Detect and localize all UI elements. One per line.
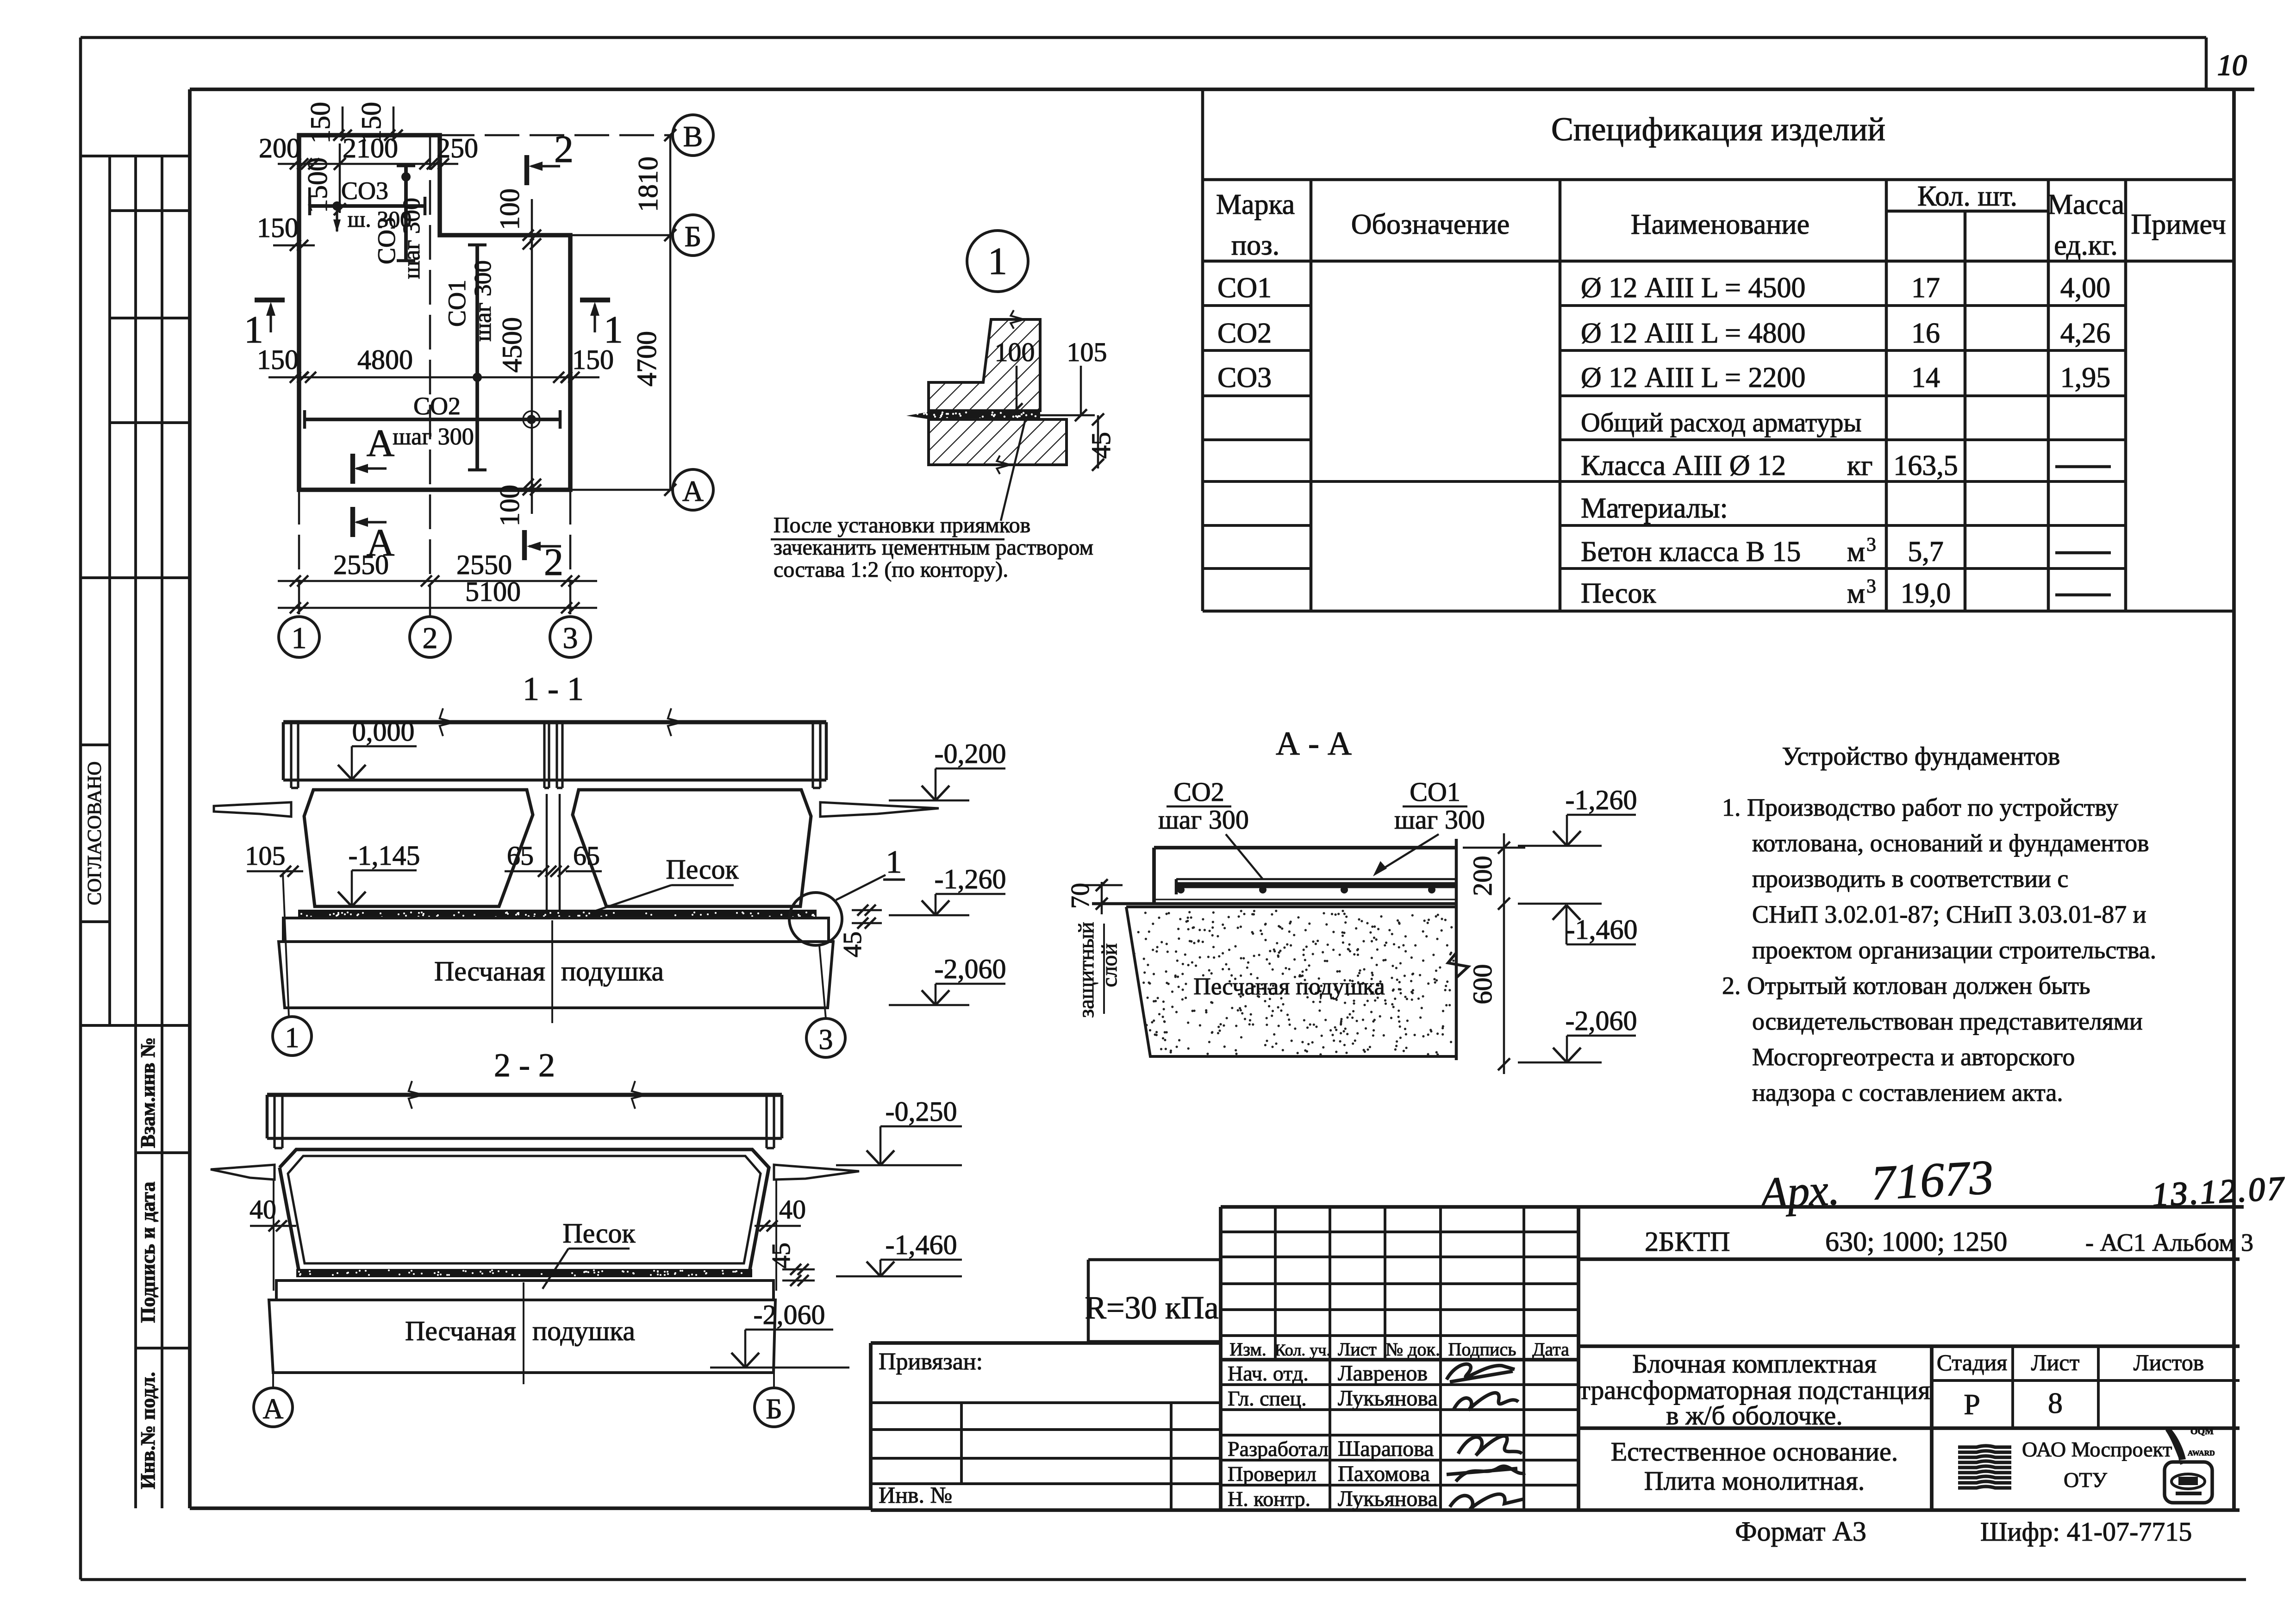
svg-text:кг: кг	[1847, 450, 1873, 481]
1-1 level -2,060	[936, 983, 1005, 985]
svg-text:освидетельствован представител: освидетельствован представителями	[1752, 1007, 2143, 1035]
privyazan box	[871, 1341, 1221, 1345]
svg-text:16: 16	[1911, 318, 1940, 349]
svg-text:4500: 4500	[497, 317, 527, 373]
svg-text:Лист: Лист	[2031, 1349, 2080, 1375]
svg-text:3: 3	[1866, 576, 1876, 597]
svg-text:105: 105	[1067, 337, 1107, 367]
award emblem	[2165, 1462, 2212, 1503]
svg-text:шаг 300: шаг 300	[470, 260, 496, 341]
svg-text:м: м	[1847, 536, 1865, 568]
svg-text:надзора с составлением акта.: надзора с составлением акта.	[1752, 1079, 2063, 1106]
spec table outline	[1201, 90, 1204, 611]
axis circle B	[673, 215, 713, 256]
svg-text:1: 1	[886, 844, 902, 880]
svg-text:Ø 12 АIII L = 4800: Ø 12 АIII L = 4800	[1581, 318, 1806, 349]
left strip cell SOGLASOVANO	[80, 743, 110, 746]
axis circle 2	[410, 617, 450, 657]
svg-text:шаг 300: шаг 300	[393, 424, 474, 450]
2-2 axis circle B	[773, 1373, 775, 1388]
2-2 legs	[273, 1095, 275, 1148]
svg-text:4700: 4700	[631, 331, 662, 387]
svg-text:А: А	[367, 422, 395, 465]
svg-text:10: 10	[2217, 49, 2247, 81]
dim 2550 2550 row	[278, 580, 597, 582]
svg-text:3: 3	[1866, 534, 1876, 556]
signatures handwritten	[1447, 1364, 1515, 1382]
svg-text:8: 8	[2048, 1387, 2063, 1419]
svg-text:3: 3	[563, 621, 578, 655]
rebar CO3 horizontal	[310, 204, 425, 208]
svg-text:Подпись и дата: Подпись и дата	[137, 1181, 159, 1323]
svg-text:65: 65	[573, 841, 600, 871]
dim 4500 rotated	[531, 252, 533, 479]
svg-text:19,0: 19,0	[1901, 578, 1951, 609]
spec table columns	[1310, 180, 1313, 611]
svg-text:4,00: 4,00	[2060, 272, 2111, 304]
svg-text:СО3: СО3	[341, 177, 388, 205]
svg-text:105: 105	[245, 841, 286, 871]
axis 3 dashed line	[569, 490, 572, 617]
svg-text:Устройство фундаментов: Устройство фундаментов	[1782, 742, 2060, 771]
svg-text:5,7: 5,7	[1908, 536, 1944, 568]
svg-text:шаг 300: шаг 300	[1158, 805, 1249, 835]
title cell line	[1578, 1344, 2240, 1348]
left strip label Vzam.inv	[136, 1151, 190, 1154]
svg-text:Изм.: Изм.	[1229, 1339, 1266, 1360]
A-A level -2,060	[1567, 1035, 1636, 1037]
svg-text:1: 1	[292, 621, 307, 655]
svg-text:Спецификация изделий: Спецификация изделий	[1551, 111, 1885, 148]
svg-text:После установки приямков: После установки приямков	[774, 513, 1030, 537]
svg-text:Нач. отд.: Нач. отд.	[1228, 1362, 1309, 1385]
svg-text:-1,145: -1,145	[349, 840, 420, 871]
svg-text:Пахомова: Пахомова	[1338, 1462, 1430, 1486]
svg-text:2: 2	[423, 621, 438, 655]
1-1 sand cushion	[279, 942, 833, 1008]
svg-text:Взам.инв №: Взам.инв №	[137, 1037, 159, 1148]
svg-text:Наименование: Наименование	[1631, 209, 1809, 240]
svg-text:-1,260: -1,260	[935, 864, 1006, 894]
svg-text:Марка: Марка	[1216, 189, 1295, 220]
svg-text:Лукьянова: Лукьянова	[1338, 1386, 1438, 1411]
svg-text:СО2: СО2	[1217, 318, 1272, 349]
svg-text:Б: Б	[685, 220, 702, 253]
title block top line	[1221, 1205, 2244, 1209]
axis circle V	[673, 115, 713, 156]
svg-text:Лист: Лист	[1338, 1339, 1377, 1360]
svg-text:проектом организации строитель: проектом организации строительства.	[1752, 936, 2156, 964]
svg-text:1810: 1810	[633, 156, 663, 212]
svg-text:R=30 кПа: R=30 кПа	[1085, 1290, 1218, 1326]
svg-text:Проверил: Проверил	[1228, 1462, 1316, 1486]
detail wall piece hatched	[929, 319, 1040, 411]
detail base slab hatched	[929, 419, 1067, 465]
svg-text:OQM: OQM	[2190, 1426, 2214, 1437]
svg-text:А: А	[682, 475, 704, 507]
svg-text:-0,200: -0,200	[935, 738, 1006, 769]
2BKTP row	[1578, 1257, 2240, 1261]
svg-text:Мосгоргеотреста и авторского: Мосгоргеотреста и авторского	[1752, 1043, 2075, 1071]
svg-text:Р: Р	[1964, 1388, 1980, 1421]
svg-text:1: 1	[285, 1022, 299, 1054]
A-A level -1,260	[1567, 814, 1636, 816]
privyazan sub rows	[871, 1401, 1221, 1404]
svg-text:45: 45	[838, 931, 867, 957]
axis circle A	[673, 469, 713, 510]
svg-text:Гл. спец.: Гл. спец.	[1228, 1387, 1307, 1410]
left strip label Podpis i data	[136, 1347, 190, 1349]
svg-text:2. Отрытый котлован должен быт: 2. Отрытый котлован должен быть	[1722, 972, 2090, 999]
svg-text:630; 1000; 1250: 630; 1000; 1250	[1825, 1226, 2007, 1257]
section mark 2 top	[524, 155, 529, 185]
1-1 centre joint lines	[546, 794, 548, 911]
svg-text:ОТУ: ОТУ	[2064, 1468, 2107, 1492]
svg-text:163,5: 163,5	[1893, 450, 1958, 481]
svg-text:-2,060: -2,060	[935, 954, 1006, 984]
svg-text:А - А: А - А	[1276, 725, 1352, 762]
2-2 top slab	[267, 1093, 782, 1097]
axis B dashed line	[440, 134, 673, 137]
svg-text:В: В	[683, 120, 703, 153]
stage sheet cells	[1932, 1379, 2240, 1382]
svg-text:Формат А3: Формат А3	[1735, 1516, 1866, 1547]
dim 150 left	[273, 244, 315, 247]
svg-text:2 - 2: 2 - 2	[494, 1047, 555, 1084]
2-2 sand seam	[296, 1269, 752, 1277]
svg-text:2: 2	[544, 541, 563, 584]
A-A dim 70	[1083, 884, 1123, 887]
dim 100 upper	[531, 199, 533, 252]
svg-text:200: 200	[1467, 856, 1497, 896]
svg-text:2550: 2550	[333, 550, 389, 580]
svg-text:Шифр: 41-07-7715: Шифр: 41-07-7715	[1980, 1517, 2192, 1547]
svg-text:СНиП 3.02.01-87; СНиП 3.03.01-: СНиП 3.02.01-87; СНиП 3.03.01-87 и	[1752, 900, 2146, 928]
rebar CO2 horizontal	[305, 418, 560, 421]
A-A slab	[1154, 846, 1456, 849]
svg-text:СО1: СО1	[1410, 777, 1460, 807]
1-1 legs	[290, 722, 292, 788]
svg-text:200: 200	[259, 133, 300, 163]
svg-text:шаг 300: шаг 300	[1394, 805, 1485, 835]
1-1 sand seam	[298, 910, 817, 918]
svg-text:А: А	[263, 1393, 284, 1425]
2-2 dim 45	[782, 1268, 815, 1271]
svg-text:производить в соответствии с: производить в соответствии с	[1752, 865, 2068, 893]
svg-text:Ø 12 АIII L = 4500: Ø 12 АIII L = 4500	[1581, 272, 1806, 304]
2-2 foundation slab	[276, 1280, 774, 1300]
2-2 left wing	[211, 1165, 275, 1180]
svg-text:№ док.: № док.	[1385, 1339, 1440, 1360]
dim 4700 rotated	[669, 235, 672, 490]
svg-text:Песчаная: Песчаная	[434, 956, 545, 987]
svg-text:в ж/б оболочке.: в ж/б оболочке.	[1666, 1400, 1842, 1430]
2-2 axis circle A	[272, 1373, 274, 1388]
1-1 centerline	[551, 920, 553, 1023]
A-A sand cushion dotted	[1126, 907, 1456, 1056]
sheet outer border	[81, 36, 2206, 39]
svg-text:-2,060: -2,060	[1566, 1006, 1637, 1036]
svg-text:45: 45	[767, 1243, 796, 1268]
1-1 axis circle 3	[806, 1018, 845, 1057]
detail dim 45	[1097, 415, 1099, 468]
svg-text:-2,060: -2,060	[754, 1299, 825, 1330]
1-1 dim 45	[852, 909, 882, 912]
svg-text:защитный: защитный	[1074, 922, 1098, 1018]
1-1 level -1,260	[936, 893, 1005, 895]
svg-text:Подпись: Подпись	[1448, 1339, 1516, 1360]
svg-text:Привязан:: Привязан:	[879, 1349, 983, 1375]
svg-text:2550: 2550	[456, 550, 512, 580]
svg-text:Лавренов: Лавренов	[1338, 1361, 1428, 1386]
axis B(2) line to circle	[570, 234, 673, 237]
section mark 1 right	[580, 298, 610, 302]
svg-text:100: 100	[494, 188, 525, 230]
svg-text:14: 14	[1911, 362, 1940, 394]
svg-text:Инв.№ подл.: Инв.№ подл.	[137, 1372, 159, 1489]
A-A dim chain right	[1503, 833, 1505, 1074]
svg-text:Обозначение: Обозначение	[1351, 209, 1510, 240]
svg-text:-1,460: -1,460	[886, 1230, 957, 1260]
rebar CO1 vertical	[475, 245, 479, 470]
award quill icon	[2165, 1427, 2186, 1460]
dim 150 4800 150 row	[268, 376, 599, 379]
svg-text:40: 40	[250, 1194, 276, 1224]
svg-text:150: 150	[305, 102, 336, 144]
svg-text:100: 100	[494, 485, 525, 526]
svg-text:100: 100	[995, 337, 1035, 367]
top dim chain 200 2100 250	[278, 163, 458, 165]
section mark 1 left	[255, 298, 285, 302]
2-2 centerline	[523, 1282, 524, 1384]
handwritten archive number	[1756, 1150, 1995, 1218]
svg-text:СО3: СО3	[1217, 362, 1272, 394]
svg-text:СО1: СО1	[443, 280, 471, 327]
svg-text:СО1: СО1	[1217, 272, 1272, 304]
spec table row lines	[1203, 304, 1311, 307]
svg-text:СО3: СО3	[373, 217, 400, 264]
1-1 detail circle on seam	[789, 893, 842, 945]
svg-text:ед.кг.: ед.кг.	[2054, 230, 2118, 261]
2-2 tub	[280, 1149, 769, 1269]
svg-text:Масса: Масса	[2047, 189, 2124, 220]
A-A level -1,460 up	[1518, 903, 1602, 905]
svg-text:40: 40	[779, 1194, 806, 1224]
svg-text:-0,250: -0,250	[886, 1096, 957, 1127]
svg-text:150: 150	[356, 102, 387, 144]
signature rows lines	[1221, 1383, 1578, 1386]
dim 150 rotated top pair	[342, 106, 344, 139]
svg-text:СОГЛАСОВАНО: СОГЛАСОВАНО	[84, 762, 106, 906]
detail 1 circle label	[967, 231, 1028, 292]
2-2 level -2,060	[745, 1329, 833, 1331]
svg-text:Материалы:: Материалы:	[1581, 493, 1728, 524]
1-1 right wing	[820, 802, 939, 817]
svg-text:Лукьянова: Лукьянова	[1338, 1487, 1438, 1511]
svg-text:65: 65	[507, 841, 534, 871]
svg-text:Общий расход арматуры: Общий расход арматуры	[1581, 407, 1861, 437]
svg-text:Стадия: Стадия	[1937, 1349, 2008, 1375]
svg-text:Дата: Дата	[1532, 1339, 1569, 1360]
svg-text:подушка: подушка	[561, 956, 664, 987]
svg-text:Кол. шт.: Кол. шт.	[1917, 181, 2017, 212]
drawing frame	[190, 87, 2254, 91]
svg-text:Н. контр.: Н. контр.	[1228, 1487, 1310, 1511]
svg-text:СО2: СО2	[413, 392, 461, 420]
1-1 leader to detail 1	[836, 875, 886, 900]
svg-text:Инв. №: Инв. №	[879, 1482, 952, 1508]
1-1 axis witness line 1	[283, 874, 289, 1017]
1-1 axis circle 1	[273, 1017, 312, 1056]
svg-text:AWARD: AWARD	[2188, 1449, 2215, 1457]
svg-text:Песок: Песок	[1581, 578, 1656, 609]
page number tick	[2205, 37, 2208, 89]
2-2 witness verticals	[273, 1180, 275, 1291]
svg-text:состава 1:2 (по контору).: состава 1:2 (по контору).	[774, 557, 1008, 582]
svg-text:Естественное основание.: Естественное основание.	[1611, 1437, 1898, 1467]
svg-text:1 - 1: 1 - 1	[523, 670, 584, 707]
svg-text:СО2: СО2	[1173, 777, 1224, 807]
dim 1500 rotated	[339, 144, 341, 213]
1-1 foundation slab	[283, 918, 829, 942]
svg-text:1. Производство работ по устро: 1. Производство работ по устройству	[1722, 793, 2118, 821]
detail leader line	[1001, 419, 1025, 521]
dim 5100 row	[278, 607, 597, 609]
1-1 right tub	[573, 790, 811, 906]
2-2 level -0,250	[880, 1125, 962, 1128]
section mark 2 bottom	[522, 530, 527, 560]
svg-text:Разработал: Разработал	[1228, 1437, 1329, 1461]
mosproekt logo stripes	[1958, 1446, 2011, 1447]
svg-text:Песок: Песок	[562, 1218, 636, 1249]
svg-text:70: 70	[1066, 883, 1095, 909]
svg-text:150: 150	[257, 212, 299, 243]
svg-text:подушка: подушка	[532, 1316, 635, 1346]
plan outline	[299, 135, 570, 490]
dim 1810 rotated	[669, 135, 672, 235]
svg-text:-1,460: -1,460	[1566, 914, 1638, 945]
svg-text:котлована, оснований и фундаме: котлована, оснований и фундаментов	[1752, 829, 2149, 857]
svg-text:Песчаная: Песчаная	[405, 1316, 516, 1346]
2-2 sand cushion	[269, 1300, 775, 1373]
svg-text:ОАО Моспроект: ОАО Моспроект	[2022, 1437, 2172, 1461]
svg-text:Арх.: Арх.	[1756, 1164, 1841, 1218]
svg-text:2: 2	[554, 128, 574, 171]
A-A rebar	[1176, 878, 1455, 881]
svg-text:1: 1	[988, 240, 1007, 283]
svg-text:Шарапова: Шарапова	[1338, 1437, 1434, 1461]
1-1 left tub	[304, 790, 533, 906]
R=30 kPa box	[1088, 1258, 1221, 1262]
detail mortar seam	[906, 412, 1040, 419]
svg-text:4800: 4800	[357, 344, 413, 375]
axis circle 3	[550, 617, 591, 657]
svg-text:- АС1 Альбом 3: - АС1 Альбом 3	[2085, 1229, 2253, 1256]
rebar CO3 vertical	[404, 166, 408, 261]
dim 100 lower	[531, 479, 533, 514]
svg-text:71673: 71673	[1870, 1150, 1995, 1211]
svg-text:17: 17	[1911, 272, 1940, 304]
svg-text:600: 600	[1467, 964, 1497, 1005]
svg-text:150: 150	[257, 344, 299, 375]
1-1 top slab	[283, 720, 826, 724]
A-A cushion break zigzag	[1448, 953, 1468, 978]
svg-text:45: 45	[1086, 432, 1116, 459]
svg-text:Ø 12 АIII L = 2200: Ø 12 АIII L = 2200	[1581, 362, 1806, 394]
svg-text:м: м	[1847, 578, 1865, 609]
svg-text:-1,260: -1,260	[1566, 785, 1637, 815]
1-1 level -0,200	[936, 768, 1005, 770]
section mark A upper	[350, 454, 355, 484]
svg-text:2БКТП: 2БКТП	[1645, 1226, 1730, 1257]
2-2 level -1,460	[880, 1259, 962, 1261]
svg-text:Плита монолитная.: Плита монолитная.	[1644, 1466, 1865, 1496]
svg-text:Песчаная подушка: Песчаная подушка	[1193, 974, 1385, 1000]
axis 1 dashed line	[298, 490, 300, 617]
left strip grid	[80, 155, 190, 157]
axis A line to circle	[570, 489, 673, 491]
axis 2 dashed line	[429, 135, 431, 617]
svg-text:шаг 300: шаг 300	[399, 198, 425, 279]
svg-text:Блочная комплектная: Блочная комплектная	[1632, 1349, 1877, 1379]
svg-text:Примеч: Примеч	[2131, 209, 2226, 240]
svg-text:5100: 5100	[465, 576, 521, 607]
svg-text:0,000: 0,000	[352, 716, 415, 747]
svg-text:250: 250	[437, 133, 478, 163]
svg-text:Б: Б	[766, 1393, 782, 1425]
svg-text:Кол. уч.: Кол. уч.	[1275, 1341, 1331, 1359]
svg-text:зачеканить цементным раствором: зачеканить цементным раствором	[774, 535, 1093, 560]
svg-text:Бетон класса В 15: Бетон класса В 15	[1581, 536, 1801, 568]
svg-text:4,26: 4,26	[2060, 318, 2111, 349]
svg-text:3: 3	[819, 1024, 833, 1056]
svg-text:слой: слой	[1097, 943, 1122, 987]
1-1 left wing	[214, 802, 291, 817]
svg-text:поз.: поз.	[1231, 230, 1279, 261]
svg-text:Класса АIII Ø 12: Класса АIII Ø 12	[1581, 450, 1786, 481]
section mark A lower	[350, 507, 355, 537]
1-1 axis witness line 3	[819, 945, 826, 1018]
svg-text:Песок: Песок	[666, 854, 739, 885]
title block small grid	[1219, 1207, 1223, 1510]
axis circle 1	[279, 617, 319, 657]
2-2 right wing	[774, 1165, 859, 1180]
svg-text:150: 150	[572, 344, 614, 375]
svg-text:Листов: Листов	[2134, 1349, 2204, 1375]
svg-text:1,95: 1,95	[2060, 362, 2111, 394]
